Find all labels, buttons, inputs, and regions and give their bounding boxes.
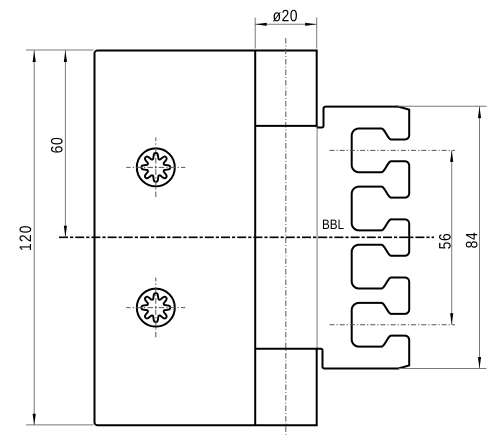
dimension 60: bottom arrow — [64, 226, 67, 238]
dimension 120: bottom arrow — [33, 414, 36, 426]
BBL label — [323, 220, 344, 229]
dimension 60: dim line — [64, 51, 66, 238]
screw head circle — [137, 289, 175, 327]
dimension 56: text — [439, 234, 451, 249]
plate/barrel tangent line — [254, 51, 256, 426]
dimension 84: extension lines — [398, 105, 486, 107]
screw 2 — [126, 278, 185, 338]
dimension o20: extension lines — [254, 18, 256, 49]
screw horizontal centerline — [126, 307, 185, 309]
slot 4 centerline — [330, 324, 456, 326]
slot 1 centerline — [330, 149, 456, 151]
barrel right edge hidden segment (thin) — [315, 127, 318, 347]
dimension 120: extension lines — [26, 49, 94, 51]
dimension o20: right arrow — [305, 23, 317, 26]
torx recess — [141, 293, 170, 322]
screw vertical centerline — [155, 137, 157, 197]
knuckle arm edge crossing barrel (top) — [255, 125, 317, 127]
torx recess — [141, 153, 170, 182]
dimension 120: dim line — [33, 51, 35, 426]
screw 1 — [126, 137, 185, 197]
hinge plate outline — [95, 51, 317, 426]
comb (knuckle column) outline with 4 T-slots — [255, 107, 409, 369]
screw center mark — [155, 166, 157, 168]
barrel centerline — [285, 38, 287, 435]
dimension 56: bottom arrow — [450, 313, 453, 325]
dimension 120: top arrow — [33, 51, 36, 63]
dimension 60: text — [51, 138, 63, 153]
dimension o20: text — [273, 10, 297, 22]
dimension 56: top arrow — [450, 150, 453, 162]
BBL reference line — [59, 236, 434, 238]
dimension 84: bottom arrow — [478, 357, 481, 369]
dimension 84: text — [466, 233, 478, 248]
dimension 84: top arrow — [478, 107, 481, 119]
screw horizontal centerline — [126, 166, 185, 168]
screw vertical centerline — [155, 278, 157, 338]
screw center mark — [155, 307, 157, 309]
dimension 84: dim line — [479, 107, 481, 369]
dimension 56: dim line — [451, 150, 453, 324]
dimension o20: dim line — [255, 23, 317, 25]
dimension 60: top arrow — [64, 51, 67, 63]
dimension 120: text — [20, 226, 32, 250]
dimension o20: left arrow — [255, 23, 267, 26]
screw head circle — [137, 148, 175, 186]
